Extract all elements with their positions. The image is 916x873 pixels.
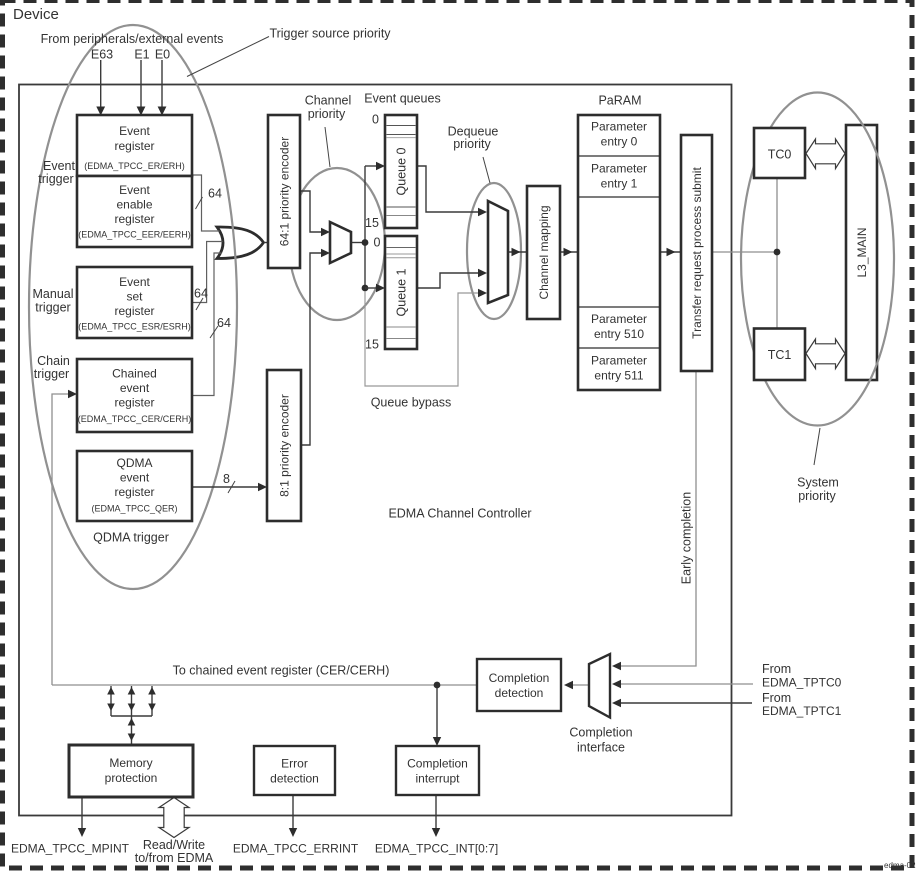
wire 8 QDMA event register to 8:1 encoder [192, 483, 267, 491]
svg-text:E63: E63 [91, 48, 113, 62]
wire memory protection double arrow 2 [128, 686, 136, 716]
svg-text:(EDMA_TPCC_CER/CERH): (EDMA_TPCC_CER/CERH) [78, 414, 192, 424]
label EDMA_TPCC_INT[0:7] [375, 842, 498, 856]
svg-text:interface: interface [577, 741, 625, 755]
svg-text:(EDMA_TPCC_QER): (EDMA_TPCC_QER) [91, 504, 177, 514]
wire junction down to completion interrupt [433, 688, 441, 746]
system priority ellipse [741, 93, 894, 426]
label queue bypass [371, 396, 452, 410]
wire bracket to memory protection double arrow [128, 716, 136, 745]
wire channel mux output node [351, 166, 365, 288]
wire 64 event set register to OR gate input B [192, 242, 223, 303]
pin label queue1 0 [374, 236, 381, 250]
wire event E63 input [96, 60, 105, 116]
channel priority ellipse [289, 168, 385, 320]
label system priority with callout [797, 428, 839, 503]
svg-text:entry 0: entry 0 [601, 135, 638, 149]
svg-text:From: From [762, 662, 791, 676]
wire transfer request submit output to TC node [712, 178, 777, 329]
svg-text:entry 510: entry 510 [594, 327, 644, 341]
wire into queue 0 [365, 162, 385, 170]
wire chain trigger into chained event register [52, 390, 77, 685]
wire OR gate output to 64:1 encoder [264, 242, 268, 244]
svg-text:15: 15 [365, 338, 379, 352]
label trigger source priority with callout line [187, 27, 391, 77]
mux dequeue priority [488, 201, 508, 303]
svg-text:64: 64 [208, 187, 222, 201]
label event queues [364, 92, 440, 106]
pin label queue0 0 [372, 113, 379, 127]
label manual trigger [33, 287, 74, 315]
dequeue priority ellipse [467, 183, 521, 319]
block completion detection [477, 659, 561, 711]
svg-text:set: set [126, 290, 143, 304]
EDMA channel controller boundary [19, 85, 732, 816]
label QDMA trigger [93, 531, 169, 545]
svg-text:Event: Event [119, 275, 150, 289]
block channel mapping [527, 186, 560, 319]
svg-text:entry 1: entry 1 [601, 177, 638, 191]
queue 1 [385, 236, 417, 349]
node TC junction [774, 249, 781, 256]
svg-text:Error: Error [281, 757, 308, 771]
value label 64 on wire C with slash [210, 316, 231, 338]
svg-text:priority: priority [453, 137, 491, 151]
svg-text:TC0: TC0 [768, 148, 792, 162]
svg-text:15: 15 [365, 216, 379, 230]
svg-text:64:1 priority encoder: 64:1 priority encoder [278, 137, 292, 246]
svg-text:to/from EDMA: to/from EDMA [135, 851, 214, 865]
svg-text:System: System [797, 476, 839, 490]
label E0 [155, 48, 170, 62]
svg-text:(EDMA_TPCC_ESR/ESRH): (EDMA_TPCC_ESR/ESRH) [78, 322, 191, 332]
block memory protection [69, 745, 193, 797]
svg-text:QDMA: QDMA [117, 456, 153, 470]
svg-text:Queue bypass: Queue bypass [371, 396, 452, 410]
svg-text:edma-020: edma-020 [884, 861, 916, 870]
register QER QDMA event register [77, 451, 192, 521]
svg-text:Channel mapping: Channel mapping [537, 205, 551, 299]
wire from EDMA_TPTC1 [612, 699, 752, 707]
svg-text:Event: Event [119, 183, 150, 197]
wire bracket joining double arrows [111, 715, 152, 717]
svg-text:register: register [114, 396, 154, 410]
svg-text:Completion: Completion [569, 726, 632, 740]
svg-text:8: 8 [223, 472, 230, 486]
wire into queue 1 [365, 284, 385, 292]
svg-text:0: 0 [372, 113, 379, 127]
svg-text:From peripherals/external even: From peripherals/external events [41, 32, 224, 46]
node mux output lower [362, 285, 369, 292]
svg-text:enable: enable [116, 198, 152, 212]
label event trigger [38, 159, 75, 186]
block TC1 [754, 329, 805, 381]
svg-text:Event queues: Event queues [364, 92, 440, 106]
wire dequeue mux to channel mapping [508, 248, 527, 256]
wire early completion [612, 371, 696, 670]
bus arrow TC0 to L3_MAIN [806, 139, 845, 169]
bus arrow read/write to/from EDMA [159, 798, 189, 838]
wire memory protection double arrow 3 [148, 686, 156, 716]
node completion feedback junction [434, 682, 441, 689]
svg-text:Trigger source priority: Trigger source priority [269, 27, 391, 41]
wire queue 0 output to dequeue mux [417, 166, 487, 216]
svg-text:EDMA_TPCC_INT[0:7]: EDMA_TPCC_INT[0:7] [375, 842, 498, 856]
svg-text:(EDMA_TPCC_ER/ERH): (EDMA_TPCC_ER/ERH) [84, 161, 185, 171]
label from peripherals/external events [41, 32, 224, 46]
svg-text:priority: priority [308, 107, 346, 121]
register EER event enable register [77, 176, 192, 247]
value label 64 on wire B with slash [194, 287, 208, 311]
label to chained event register [173, 664, 390, 678]
svg-text:event: event [120, 471, 150, 485]
block error detection [254, 746, 335, 795]
value label 64 on wire A with slash [196, 187, 222, 210]
wire queue bypass [365, 289, 487, 386]
svg-text:Early completion: Early completion [680, 492, 694, 584]
svg-text:Chained: Chained [112, 367, 157, 381]
label from EDMA_TPTC0 [762, 662, 842, 690]
svg-text:EDMA_TPTC1: EDMA_TPTC1 [762, 704, 842, 718]
label channel priority with callout [305, 94, 352, 168]
label EDMA_TPCC_MPINT [11, 842, 130, 856]
label E63 [91, 48, 113, 62]
svg-text:E1: E1 [134, 48, 149, 62]
svg-text:Event: Event [43, 159, 75, 173]
svg-text:Queue 0: Queue 0 [395, 147, 409, 195]
svg-text:register: register [114, 304, 154, 318]
svg-text:Manual: Manual [33, 287, 74, 301]
mux completion interface [589, 654, 610, 718]
label dequeue priority with callout [448, 125, 499, 184]
svg-text:0: 0 [374, 236, 381, 250]
trigger source priority ellipse [29, 25, 237, 589]
value label 8 on QDMA wire with slash [223, 472, 235, 493]
svg-text:Queue 1: Queue 1 [395, 268, 409, 316]
block TC0 [754, 128, 805, 178]
wire completion mux to completion detection [564, 681, 589, 689]
wire 64:1 encoder output to channel priority mux [300, 191, 330, 236]
svg-text:Completion: Completion [407, 757, 468, 771]
svg-text:EDMA_TPTC0: EDMA_TPTC0 [762, 676, 842, 690]
label: Device [13, 6, 59, 23]
svg-text:entry 511: entry 511 [594, 369, 643, 383]
label early completion [680, 492, 694, 584]
wire 64 event registers to OR gate input A [192, 175, 220, 231]
label completion interface [569, 726, 632, 755]
OR gate event combine [217, 227, 264, 259]
wire 64 chained event register to OR gate input C [192, 253, 222, 396]
svg-text:Transfer request process submi: Transfer request process submit [690, 167, 704, 339]
memory PaRAM [578, 115, 660, 390]
label figure id edma-020 [884, 861, 916, 870]
svg-text:(EDMA_TPCC_EER/EERH): (EDMA_TPCC_EER/EERH) [78, 230, 191, 240]
svg-text:TC1: TC1 [768, 348, 792, 362]
wire from EDMA_TPTC0 [612, 680, 753, 688]
encoder 64:1 priority encoder [268, 115, 300, 268]
svg-text:Parameter: Parameter [591, 162, 647, 176]
register CER chained event register [77, 359, 192, 432]
svg-text:Channel: Channel [305, 94, 352, 108]
label E1 [134, 48, 149, 62]
wire memory protection interrupt output [78, 797, 86, 837]
register ESR event set register [77, 267, 192, 338]
svg-text:EDMA_TPCC_ERRINT: EDMA_TPCC_ERRINT [233, 842, 359, 856]
svg-text:Read/Write: Read/Write [143, 838, 205, 852]
svg-text:PaRAM: PaRAM [598, 94, 641, 108]
svg-text:trigger: trigger [34, 367, 69, 381]
svg-text:event: event [120, 381, 150, 395]
svg-text:8:1 priority encoder: 8:1 priority encoder [278, 394, 292, 497]
wire event E1 input [137, 60, 146, 116]
label EDMA channel controller [388, 507, 531, 521]
svg-text:protection: protection [105, 771, 158, 785]
wire to chained event register horizontal bus [52, 684, 477, 686]
wire channel mapping to PaRAM [560, 248, 578, 256]
wire error detection interrupt output [289, 795, 297, 837]
svg-text:detection: detection [270, 772, 319, 786]
svg-text:L3_MAIN: L3_MAIN [855, 227, 869, 277]
wire 8:1 encoder output to channel priority mux [301, 249, 330, 445]
block U10 L3_MAIN [846, 125, 877, 380]
svg-text:Parameter: Parameter [591, 120, 647, 134]
block completion interrupt [396, 746, 479, 795]
svg-text:detection: detection [495, 686, 544, 700]
encoder 8:1 priority encoder [267, 370, 301, 521]
label PaRAM [598, 94, 641, 108]
svg-text:EDMA Channel Controller: EDMA Channel Controller [388, 507, 531, 521]
svg-text:E0: E0 [155, 48, 170, 62]
mux channel priority [330, 222, 351, 263]
bus arrow TC1 to L3_MAIN [806, 339, 845, 369]
svg-text:interrupt: interrupt [415, 772, 460, 786]
pin label queue1 15 [365, 338, 379, 352]
svg-text:QDMA trigger: QDMA trigger [93, 531, 169, 545]
svg-text:64: 64 [217, 316, 231, 330]
block transfer request process submit [681, 135, 712, 371]
wire PaRAM to transfer request submit [660, 248, 681, 256]
svg-text:Chain: Chain [37, 354, 70, 368]
wire event E0 input [158, 60, 167, 116]
label read/write to/from EDMA [135, 838, 214, 865]
svg-text:register: register [114, 139, 154, 153]
wire completion interrupt output [432, 795, 440, 837]
svg-text:priority: priority [798, 489, 836, 503]
register ER event register [77, 115, 192, 176]
svg-text:register: register [114, 212, 154, 226]
svg-text:From: From [762, 691, 791, 705]
svg-text:64: 64 [194, 287, 208, 301]
pin label queue0 15 [365, 216, 379, 230]
wire memory protection double arrow 1 [107, 686, 115, 716]
svg-text:Completion: Completion [489, 671, 550, 685]
svg-text:Event: Event [119, 124, 150, 138]
svg-text:trigger: trigger [35, 301, 70, 315]
svg-text:Memory: Memory [109, 756, 152, 770]
svg-text:Device: Device [13, 6, 59, 23]
svg-text:Parameter: Parameter [591, 354, 647, 368]
label EDMA_TPCC_ERRINT [233, 842, 359, 856]
label chain trigger [34, 354, 70, 381]
wire queue 1 output to dequeue mux [417, 269, 487, 288]
svg-text:register: register [114, 485, 154, 499]
svg-text:Parameter: Parameter [591, 312, 647, 326]
queue 0 [385, 115, 417, 228]
label from EDMA_TPTC1 [762, 691, 842, 718]
svg-text:EDMA_TPCC_MPINT: EDMA_TPCC_MPINT [11, 842, 130, 856]
svg-text:To chained event register (CER: To chained event register (CER/CERH) [173, 664, 390, 678]
svg-text:trigger: trigger [38, 172, 73, 186]
node mux output upper [362, 239, 369, 246]
